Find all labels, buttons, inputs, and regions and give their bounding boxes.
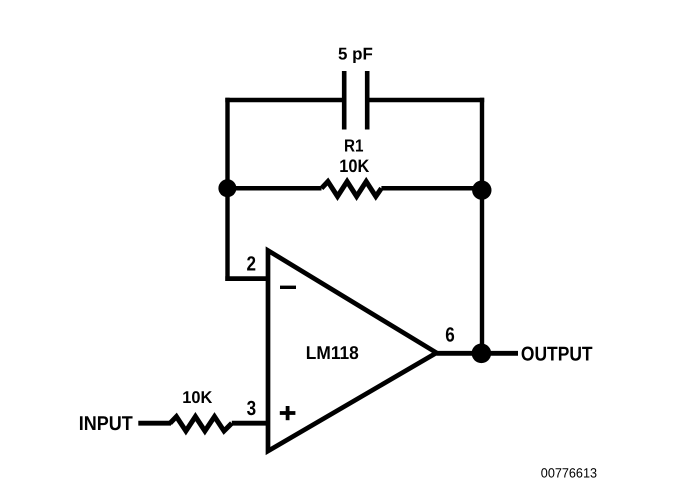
minus sign (inverting input) [280, 286, 296, 289]
wire: top feedback, C1 right plate to right corner [367, 98, 484, 103]
svg-text:LM118: LM118 [306, 342, 359, 363]
wire: op-amp output to OUTPUT terminal [437, 351, 519, 356]
wire: R2 to op-amp pin 3 [232, 421, 270, 426]
wire: feedback resistor left lead [228, 186, 322, 191]
wire: input lead to R2 [138, 421, 171, 426]
svg-text:10K: 10K [339, 156, 369, 176]
svg-text:00776613: 00776613 [541, 465, 597, 480]
junction dot: left (inverting node) [218, 179, 236, 197]
junction dot: output node [472, 344, 492, 364]
wire: right vertical from top corner to output node [480, 98, 484, 353]
resistor R1 zigzag [322, 182, 382, 197]
svg-text:INPUT: INPUT [79, 413, 133, 435]
svg-text:6: 6 [445, 324, 455, 347]
junction dot: right (feedback/output column) [472, 181, 491, 200]
plus sign (non-inverting input) [280, 406, 296, 420]
wire: top feedback, left corner to C1 left plate [225, 98, 344, 103]
svg-text:5 pF: 5 pF [338, 45, 373, 64]
svg-text:10K: 10K [182, 388, 213, 407]
svg-text:3: 3 [247, 397, 257, 420]
resistor R2 (input 10K) zigzag [170, 417, 232, 431]
wire: stub to op-amp pin 2 [225, 276, 270, 281]
capacitor C1 plates [344, 71, 367, 130]
svg-text:OUTPUT: OUTPUT [521, 343, 593, 365]
op-amp U1 triangle [268, 251, 437, 452]
svg-text:R1: R1 [344, 136, 364, 156]
svg-text:2: 2 [247, 252, 257, 275]
wire: feedback resistor right lead [381, 186, 482, 191]
wire: left vertical (node A, inverting net) [225, 98, 229, 281]
